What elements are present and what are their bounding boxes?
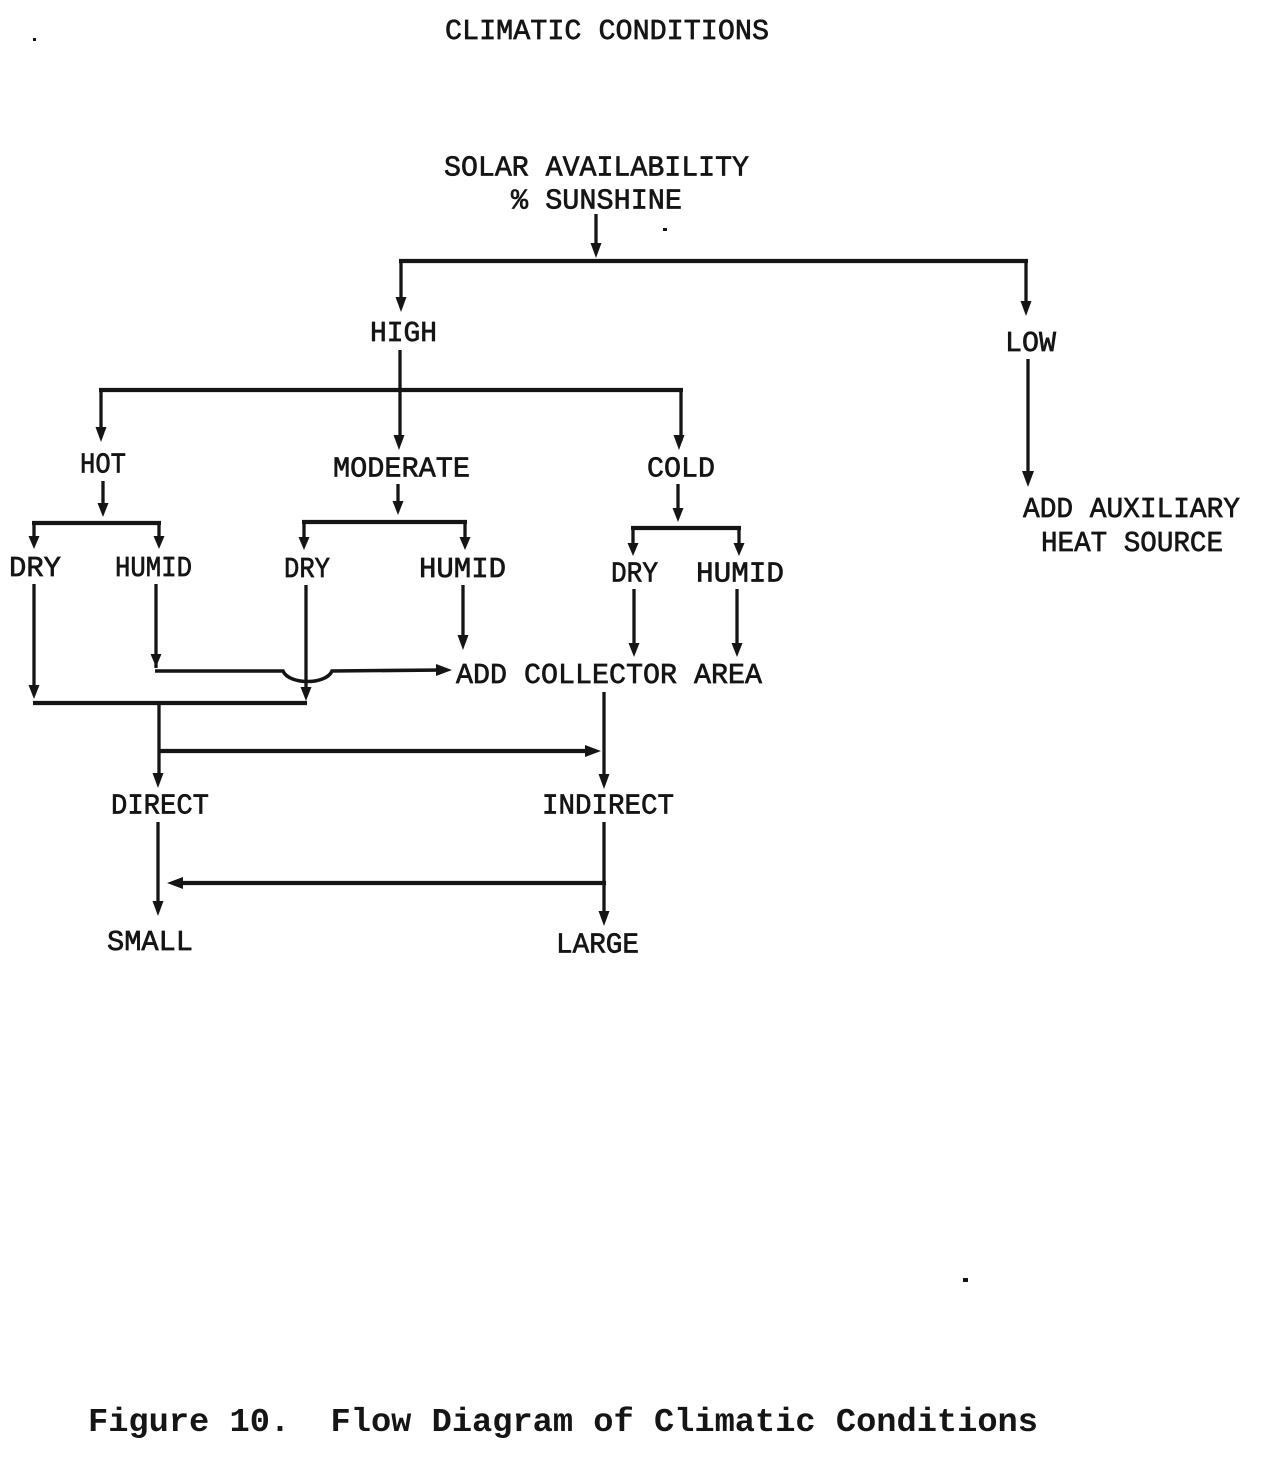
svg-text:HUMID: HUMID [115, 552, 192, 585]
svg-text:SOLAR AVAILABILITY: SOLAR AVAILABILITY [444, 152, 749, 185]
svg-text:% SUNSHINE: % SUNSHINE [511, 185, 682, 218]
svg-text:SMALL: SMALL [107, 926, 193, 959]
svg-text:CLIMATIC CONDITIONS: CLIMATIC CONDITIONS [445, 15, 769, 48]
svg-text:COLD: COLD [647, 453, 715, 486]
svg-text:ADD AUXILIARY: ADD AUXILIARY [1023, 493, 1240, 526]
svg-text:ADD COLLECTOR AREA: ADD COLLECTOR AREA [456, 659, 763, 692]
svg-text:HOT: HOT [80, 449, 126, 482]
svg-text:LARGE: LARGE [556, 929, 639, 962]
svg-text:HIGH: HIGH [370, 317, 437, 350]
svg-text:Figure 10. Flow Diagram of Cl: Figure 10. Flow Diagram of Climatic Cond… [88, 1404, 1038, 1442]
svg-text:HUMID: HUMID [696, 558, 784, 591]
svg-text:HEAT SOURCE: HEAT SOURCE [1041, 527, 1223, 560]
svg-text:LOW: LOW [1005, 327, 1057, 360]
svg-text:INDIRECT: INDIRECT [542, 790, 674, 823]
svg-text:DIRECT: DIRECT [111, 790, 209, 823]
svg-text:HUMID: HUMID [419, 553, 506, 586]
svg-text:DRY: DRY [284, 553, 330, 586]
svg-text:DRY: DRY [611, 558, 658, 591]
svg-text:MODERATE: MODERATE [333, 453, 470, 486]
svg-text:DRY: DRY [9, 552, 61, 585]
